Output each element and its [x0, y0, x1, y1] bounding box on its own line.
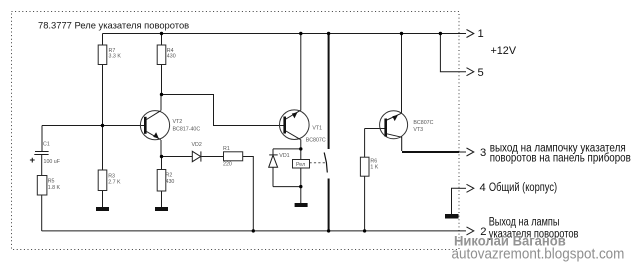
svg-text:220: 220 — [223, 162, 232, 168]
svg-text:поворотов на панель приборов: поворотов на панель приборов — [490, 151, 631, 164]
svg-text:5: 5 — [478, 67, 484, 79]
svg-text:4: 4 — [480, 182, 486, 194]
svg-text:1.8 K: 1.8 K — [48, 185, 61, 191]
svg-text:1: 1 — [478, 28, 484, 40]
svg-text:2.7 K: 2.7 K — [108, 180, 121, 186]
svg-text:+: + — [30, 155, 36, 166]
svg-text:Рел: Рел — [296, 162, 305, 168]
svg-text:3: 3 — [480, 147, 486, 159]
svg-text:430: 430 — [167, 54, 176, 60]
svg-text:+12V: +12V — [491, 45, 517, 57]
svg-text:100 uF: 100 uF — [44, 159, 61, 165]
svg-text:78.3777 Реле указателя поворот: 78.3777 Реле указателя поворотов — [38, 20, 189, 31]
svg-text:BC817-40C: BC817-40C — [173, 127, 201, 133]
svg-text:Общий (корпус): Общий (корпус) — [489, 181, 557, 194]
svg-text:VT3: VT3 — [413, 127, 423, 133]
svg-text:R1: R1 — [223, 146, 230, 152]
svg-text:430: 430 — [166, 179, 175, 185]
svg-text:3.3 K: 3.3 K — [109, 54, 122, 60]
svg-text:BC807C: BC807C — [306, 138, 326, 144]
svg-text:autovazremont.blogspot.com: autovazremont.blogspot.com — [452, 246, 625, 262]
svg-text:VT2: VT2 — [173, 119, 183, 125]
svg-text:R5: R5 — [48, 179, 55, 185]
svg-text:VD2: VD2 — [192, 142, 202, 148]
svg-text:1 K: 1 K — [370, 165, 378, 171]
svg-text:C1: C1 — [43, 142, 50, 148]
svg-text:BC807C: BC807C — [413, 120, 433, 126]
svg-text:R2: R2 — [166, 173, 173, 179]
svg-text:VD1: VD1 — [279, 153, 289, 159]
svg-text:VT1: VT1 — [312, 126, 322, 132]
